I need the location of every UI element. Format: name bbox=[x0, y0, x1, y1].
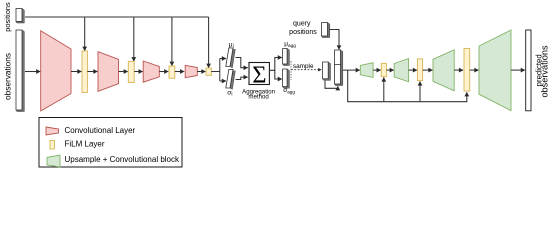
upsample block G2 bbox=[394, 59, 408, 82]
node: sigma_agg plate bbox=[283, 69, 290, 88]
wire: G4 to output bbox=[511, 69, 525, 71]
legend: upsample icon bbox=[47, 155, 60, 167]
conv layer T2 bbox=[98, 52, 119, 92]
FiLM layer F3 bbox=[169, 66, 175, 78]
legend box bbox=[39, 118, 182, 168]
node: positions plate bbox=[16, 9, 24, 24]
wire: drop to FiLM F2 bbox=[133, 17, 135, 61]
wire: drop to FiLM F3 bbox=[171, 17, 173, 66]
svg-text:Upsample + Convolutional block: Upsample + Convolutional block bbox=[65, 155, 181, 164]
node: sigma_i plate bbox=[226, 70, 236, 90]
svg-text:observations: observations bbox=[539, 45, 549, 97]
wire: D2 to G3 bbox=[423, 69, 433, 71]
wire: F3 to T4 bbox=[175, 71, 184, 73]
wire: feedback up into D2 bbox=[419, 82, 421, 102]
FiLM layer D1 bbox=[381, 64, 386, 77]
wire: drop to FiLM F4 bbox=[208, 17, 210, 68]
wire: feedback up into D1 bbox=[383, 78, 385, 102]
node: query positions plate bbox=[322, 23, 330, 38]
svg-text:method: method bbox=[248, 94, 268, 101]
wire: F1 to T2 bbox=[87, 71, 97, 73]
svg-text:positions: positions bbox=[3, 2, 12, 32]
node: mu_agg plate bbox=[283, 49, 290, 66]
upsample block G4 bbox=[479, 30, 511, 111]
conv layer T1 bbox=[41, 31, 71, 111]
wire: dashed sample connector bbox=[290, 61, 292, 80]
wire: G2 to D2 bbox=[409, 69, 417, 71]
svg-text:query: query bbox=[293, 21, 311, 28]
wire: T4 to F4 bbox=[197, 71, 205, 73]
wire: F2 to T3 bbox=[134, 71, 142, 73]
svg-text:positions: positions bbox=[289, 29, 317, 36]
wire: sigma_i to Sigma box bbox=[236, 77, 248, 79]
svg-text:sample: sample bbox=[293, 63, 314, 70]
wire: G1 to D1 bbox=[373, 69, 381, 71]
wire: mu_i to Sigma box bbox=[236, 58, 248, 68]
legend: FiLM icon bbox=[50, 141, 55, 150]
FiLM layer D2 bbox=[417, 59, 422, 81]
node: sample plate bbox=[323, 62, 331, 80]
FiLM layer F2 bbox=[128, 62, 134, 83]
upsample block G1 bbox=[360, 63, 373, 78]
svg-text:Convolutional Layer: Convolutional Layer bbox=[65, 126, 136, 135]
wire: FiLM conditioning top line bbox=[25, 16, 209, 18]
node: concat plate bbox=[335, 50, 343, 86]
wire: query positions to concat plate bbox=[330, 30, 339, 50]
wire: sample plate to concat bottom bbox=[325, 81, 338, 89]
conv layer T3 bbox=[143, 61, 159, 82]
svg-text:Σ: Σ bbox=[252, 61, 266, 88]
node: predicted observations output rect bbox=[526, 30, 531, 111]
legend: conv layer icon bbox=[46, 127, 59, 135]
wire: observations to conv T1 bbox=[25, 71, 40, 73]
FiLM layer F4 bbox=[206, 68, 211, 75]
conv layer T4 bbox=[185, 65, 197, 77]
wire: F4 branch to mu_i and sigma_i bbox=[211, 59, 220, 82]
wire: T1 to F1 bbox=[71, 71, 81, 73]
wire: G3 to D3 bbox=[454, 69, 463, 71]
wire: Sigma to sigma_agg bbox=[275, 70, 282, 79]
wire: Sigma to mu_agg bbox=[269, 58, 281, 71]
wire: D3 to G4 bbox=[470, 69, 479, 71]
wire: concat to decoder bbox=[343, 69, 360, 71]
svg-text:observations: observations bbox=[2, 53, 12, 100]
FiLM layer D3 bbox=[464, 48, 470, 91]
wire: drop to FiLM F1 bbox=[84, 17, 86, 51]
label predicted observations bbox=[534, 45, 549, 97]
wire: T2 to F2 bbox=[119, 71, 128, 73]
node: mu_i plate bbox=[226, 48, 236, 68]
aggregation Sigma box bbox=[249, 63, 269, 85]
FiLM layer F1 bbox=[82, 51, 87, 93]
upsample block G3 bbox=[433, 50, 454, 91]
wire: D1 to G2 bbox=[386, 69, 393, 71]
svg-text:FiLM Layer: FiLM Layer bbox=[65, 139, 105, 148]
wire: decoder FiLM feedback line bbox=[348, 70, 467, 102]
node: observations plate bbox=[16, 30, 24, 112]
wire: T3 to F3 bbox=[159, 71, 168, 73]
